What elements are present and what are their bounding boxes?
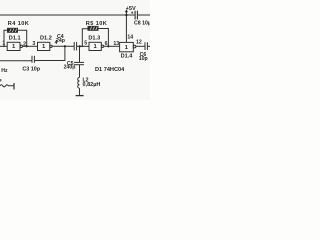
inverter D1.4 — [120, 42, 134, 51]
wire R4 right leg — [18, 30, 27, 46]
inverter D1.2 — [38, 42, 50, 50]
svg-text:D1.2: D1.2 — [40, 35, 52, 41]
capacitor C5 — [74, 62, 84, 64]
wire C5 to L2 — [79, 65, 81, 78]
svg-text:1: 1 — [2, 41, 5, 47]
svg-text:D1 74HC04: D1 74HC04 — [95, 67, 125, 73]
inverter D1.3 — [89, 42, 101, 50]
wire stub at left edge — [0, 79, 2, 82]
svg-text:10p: 10p — [139, 56, 148, 62]
inductor L2 — [78, 77, 80, 88]
wire C4 to D1.3 in — [77, 45, 89, 47]
svg-text:R5 10K: R5 10K — [86, 21, 107, 27]
junction dots — [3, 14, 127, 48]
capacitor C6 — [145, 42, 147, 50]
capacitor C8 — [135, 11, 137, 20]
wire C3 to left edge — [0, 60, 32, 62]
svg-text:240p: 240p — [64, 65, 76, 71]
+5V arrowhead — [125, 9, 128, 12]
svg-text:D1.3: D1.3 — [88, 35, 100, 41]
svg-text:Hz: Hz — [1, 68, 8, 74]
svg-text:0,82µH: 0,82µH — [83, 82, 101, 88]
capacitor C4 — [74, 42, 76, 50]
svg-text:3: 3 — [32, 41, 35, 47]
inductor L1 (partial, cut at left edge) — [0, 85, 14, 87]
svg-text:5: 5 — [84, 41, 87, 47]
svg-text:D1.1: D1.1 — [9, 36, 21, 42]
wire input lead pin1 — [0, 45, 8, 47]
wire D1.1 out to D1.2 in — [23, 45, 38, 47]
svg-text:14: 14 — [127, 35, 133, 41]
wire R5 right leg — [98, 29, 109, 47]
svg-text:+: + — [131, 11, 134, 17]
svg-text:24p: 24p — [56, 38, 65, 44]
wire +5V rail — [0, 14, 135, 16]
svg-text:13: 13 — [113, 41, 119, 47]
inverter D1.1 — [7, 42, 20, 50]
wire D1.4 out to C6 — [136, 45, 145, 47]
ground — [76, 95, 84, 97]
svg-text:R4 10K: R4 10K — [8, 21, 29, 27]
resistor R5 — [88, 26, 98, 30]
wire rail right of C8 — [138, 14, 150, 16]
wire C6 to right edge — [147, 45, 150, 47]
capacitor C3 — [32, 56, 34, 63]
svg-text:6: 6 — [105, 41, 108, 47]
resistor R4 — [8, 28, 18, 32]
svg-text:C8 10µ: C8 10µ — [134, 21, 150, 27]
wire C5 branch vertical — [79, 46, 81, 62]
wire branch down to C3 row — [34, 46, 65, 60]
svg-text:D1.4: D1.4 — [121, 54, 134, 60]
svg-text:2: 2 — [23, 41, 26, 47]
wire pin14 vcc — [125, 10, 127, 42]
svg-text:12: 12 — [136, 40, 142, 46]
svg-text:C3 10p: C3 10p — [22, 67, 40, 73]
wire R4 left leg — [4, 30, 8, 46]
wire L2 to ground — [79, 88, 81, 95]
capacitor plate (partial component at left edge) — [13, 83, 15, 90]
wire R5 left leg — [82, 29, 88, 47]
wire D1.2 out to C4 — [52, 45, 74, 47]
wire D1.3 out to D1.4 in — [104, 45, 120, 47]
